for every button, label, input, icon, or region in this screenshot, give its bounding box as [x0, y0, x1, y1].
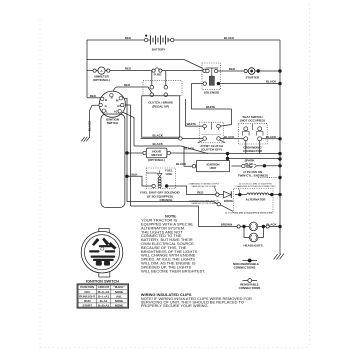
- svg-text:L: L: [106, 109, 108, 113]
- svg-text:S: S: [111, 95, 113, 99]
- svg-text:BLACK: BLACK: [266, 80, 277, 84]
- svg-text:(NOT OCCUPIED): (NOT OCCUPIED): [240, 119, 265, 123]
- svg-text:(IF SO EQUIPPED): (IF SO EQUIPPED): [147, 194, 173, 198]
- svg-text:B+A1: B+A1: [100, 299, 108, 303]
- svg-text:LINE: LINE: [166, 172, 173, 176]
- svg-text:STARTER: STARTER: [245, 76, 260, 80]
- svg-text:DIODE: DIODE: [224, 199, 233, 203]
- svg-text:BLK: BLK: [131, 172, 138, 176]
- svg-text:WHITE: WHITE: [187, 122, 197, 126]
- svg-text:A1: A1: [117, 104, 121, 108]
- svg-text:CIRCUIT: CIRCUIT: [98, 285, 110, 289]
- svg-text:WHITE: WHITE: [206, 105, 216, 109]
- svg-text:BROWN: BROWN: [221, 223, 232, 227]
- svg-text:ORANGE: ORANGE: [160, 198, 173, 202]
- svg-text:NONE: NONE: [115, 290, 124, 294]
- svg-text:POSITION: POSITION: [80, 285, 94, 289]
- svg-text:BLACK: BLACK: [184, 146, 195, 150]
- svg-text:M+G+A1: M+G+A1: [98, 290, 110, 294]
- svg-text:HEADLIGHTS.: HEADLIGHTS.: [244, 243, 264, 247]
- svg-text:(CHARGING SYSTEM DISCONNECTED): (CHARGING SYSTEM DISCONNECTED): [235, 185, 276, 188]
- svg-text:GAP: GAP: [246, 165, 252, 169]
- svg-text:BLACK: BLACK: [266, 223, 277, 227]
- svg-text:B+S+A1: B+S+A1: [98, 303, 110, 307]
- svg-text:RED: RED: [90, 94, 96, 98]
- svg-text:NONE: NONE: [115, 299, 124, 303]
- svg-text:"MAKE": "MAKE": [113, 285, 125, 289]
- svg-text:RED: RED: [124, 83, 130, 87]
- svg-text:RED: RED: [125, 67, 131, 71]
- svg-text:A&L: A&L: [116, 294, 122, 298]
- svg-text:5 AMP AT 12 VOLTS MIN.: 5 AMP AT 12 VOLTS MIN.: [191, 202, 217, 205]
- svg-text:B: B: [105, 98, 107, 102]
- svg-text:14 VOLTS AC MIN. @ 3600 RPM (L: 14 VOLTS AC MIN. @ 3600 RPM (LIGHTS OFF): [225, 211, 273, 214]
- svg-text:OFF: OFF: [84, 290, 90, 294]
- svg-text:B+L+A1: B+L+A1: [98, 294, 109, 298]
- svg-text:(OPTIONAL): (OPTIONAL): [148, 158, 165, 162]
- svg-text:BATTERY: BATTERY: [152, 48, 166, 52]
- svg-text:BLACK: BLACK: [266, 135, 277, 139]
- svg-text:CONNECTIONS: CONNECTIONS: [234, 266, 256, 270]
- svg-text:NONE: NONE: [115, 303, 124, 307]
- svg-text:A2: A2: [114, 110, 118, 114]
- svg-text:(OPTIONAL): (OPTIONAL): [93, 78, 110, 82]
- svg-text:START: START: [83, 303, 93, 307]
- svg-text:WILL BECOME THEIR BRIGHTEST.: WILL BECOME THEIR BRIGHTEST.: [141, 268, 205, 273]
- svg-text:BLACK: BLACK: [224, 36, 235, 40]
- svg-text:ALTERNATOR: ALTERNATOR: [246, 198, 267, 202]
- svg-text:UNIT: UNIT: [210, 166, 217, 170]
- svg-text:(CLUTCH OFF): (CLUTCH OFF): [201, 147, 222, 151]
- svg-text:RUN/LIGHT: RUN/LIGHT: [79, 294, 95, 298]
- svg-text:BLACK: BLACK: [153, 142, 164, 146]
- svg-text:RED: RED: [125, 36, 131, 40]
- svg-text:BLACK: BLACK: [153, 134, 164, 138]
- svg-text:BLACK: BLACK: [224, 135, 235, 139]
- svg-text:CONNECTOR: CONNECTOR: [243, 149, 263, 153]
- svg-text:FUSE: FUSE: [154, 73, 162, 77]
- svg-text:BLACK: BLACK: [176, 162, 187, 166]
- svg-text:SOLENOID: SOLENOID: [204, 91, 219, 95]
- svg-text:IGNITION SWITCH: IGNITION SWITCH: [86, 280, 119, 284]
- svg-text:TWIN-CYL. ENGINES): TWIN-CYL. ENGINES): [238, 173, 268, 177]
- svg-text:RED: RED: [229, 67, 235, 71]
- svg-text:BLACK: BLACK: [88, 120, 92, 131]
- svg-text:METER: METER: [151, 153, 162, 157]
- svg-text:3 AMP AT 36 VOLTS MIN.: 3 AMP AT 36 VOLTS MIN.: [191, 185, 217, 188]
- svg-text:SWITCH: SWITCH: [107, 121, 119, 125]
- svg-text:RED: RED: [197, 191, 203, 195]
- svg-text:CONNECTIONS: CONNECTIONS: [239, 286, 261, 290]
- svg-text:CHARGING SYSTEM OUTPUT: CHARGING SYSTEM OUTPUT: [189, 182, 221, 185]
- svg-text:RUN: RUN: [84, 299, 90, 303]
- svg-text:PROPERLY SECURE YOUR WIRING.: PROPERLY SECURE YOUR WIRING.: [141, 303, 209, 308]
- svg-text:(PEDAL UP): (PEDAL UP): [152, 104, 169, 108]
